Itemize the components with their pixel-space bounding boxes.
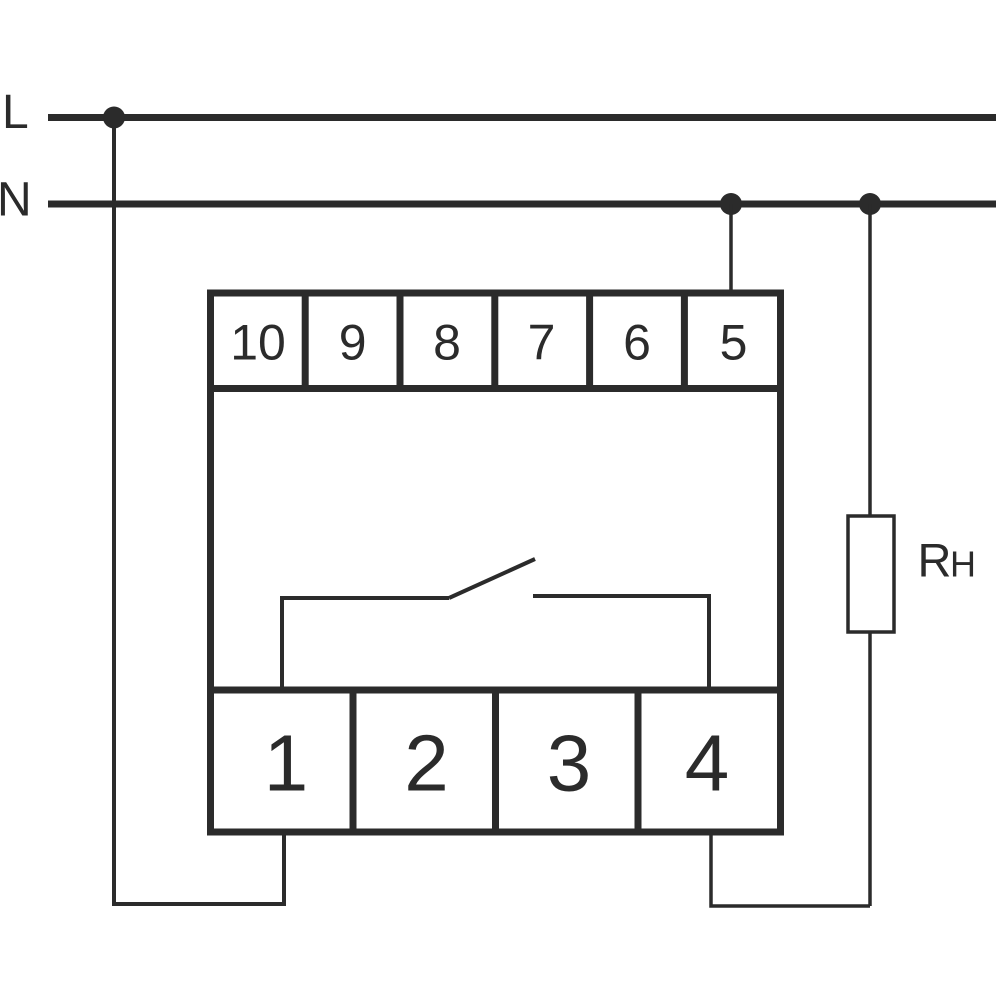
svg-text:8: 8 <box>433 315 461 371</box>
svg-text:9: 9 <box>339 315 367 371</box>
svg-text:H: H <box>950 544 976 585</box>
svg-text:N: N <box>0 174 32 227</box>
svg-text:2: 2 <box>404 719 449 808</box>
svg-text:10: 10 <box>230 315 286 371</box>
svg-text:1: 1 <box>264 719 309 808</box>
svg-text:3: 3 <box>547 719 592 808</box>
svg-text:L: L <box>2 86 29 139</box>
svg-text:5: 5 <box>720 315 748 371</box>
svg-text:4: 4 <box>685 719 730 808</box>
svg-text:R: R <box>918 534 952 587</box>
svg-text:7: 7 <box>528 315 556 371</box>
svg-text:6: 6 <box>623 315 651 371</box>
